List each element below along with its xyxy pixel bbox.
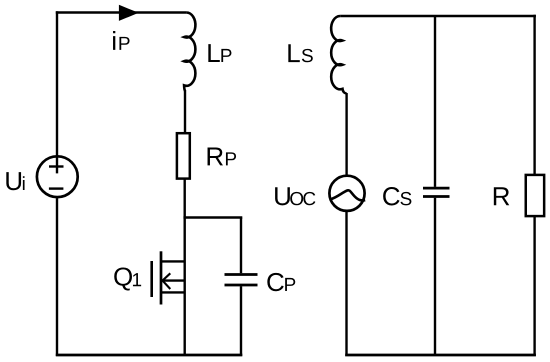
current arrow iP: [119, 5, 139, 21]
wire: branch top horizontal (node to CP): [183, 216, 242, 218]
label Ui: [6, 172, 24, 190]
wire: left circuit top horizontal: [56, 11, 187, 13]
Ui plus bar: [49, 165, 64, 167]
wire: CP branch top: [240, 218, 242, 274]
label UOC: [275, 187, 315, 205]
wire: CS branch top: [434, 17, 436, 187]
voltage source UOC circle: [329, 176, 364, 211]
transistor Q1: arrow barbs: [163, 273, 171, 289]
wire: CS branch bottom: [434, 198, 436, 356]
wire: R branch top: [533, 15, 535, 175]
wire: CP branch bottom: [240, 286, 242, 356]
wire: LS to UOC: [345, 93, 347, 176]
voltage source Ui circle: [37, 156, 78, 197]
inductor LP: [184, 12, 195, 90]
label R: [494, 187, 509, 205]
capacitor CS plates: [423, 188, 450, 196]
label LS: [288, 44, 312, 62]
wire: left vertical below Ui source: [56, 198, 58, 356]
transistor Q1: source stub: [161, 291, 186, 293]
wire: bottom horizontal right circuit: [345, 354, 536, 357]
inductor LS: [331, 16, 346, 94]
transistor Q1: gate bar: [150, 261, 153, 297]
wire: RP to node: [183, 179, 185, 218]
resistor R: [526, 175, 544, 216]
wire: drain-source vertical through Q1: [183, 218, 185, 357]
label RP: [208, 148, 237, 166]
transistor Q1: body stub with arrow: [161, 279, 186, 281]
label iP: [113, 31, 130, 50]
label LP: [208, 44, 231, 62]
wire: right circuit top horizontal: [340, 15, 536, 17]
capacitor CP plates: [225, 275, 258, 286]
label CP: [267, 273, 295, 291]
Ui minus bar: [49, 187, 64, 189]
transistor Q1: drain stub: [161, 260, 186, 262]
wire: UOC to bottom: [345, 211, 347, 356]
wire: bottom horizontal left circuit: [56, 354, 243, 357]
UOC sine wave: [330, 190, 365, 200]
label Q1: [114, 267, 141, 290]
resistor RP: [177, 133, 190, 178]
wire: R branch bottom: [533, 216, 535, 356]
wire: LP to RP: [184, 90, 186, 134]
wire: left circuit left vertical (into Ui source, forms + vertical): [56, 11, 58, 173]
label CS: [383, 187, 411, 205]
transistor Q1: channel bar: [160, 251, 163, 304]
